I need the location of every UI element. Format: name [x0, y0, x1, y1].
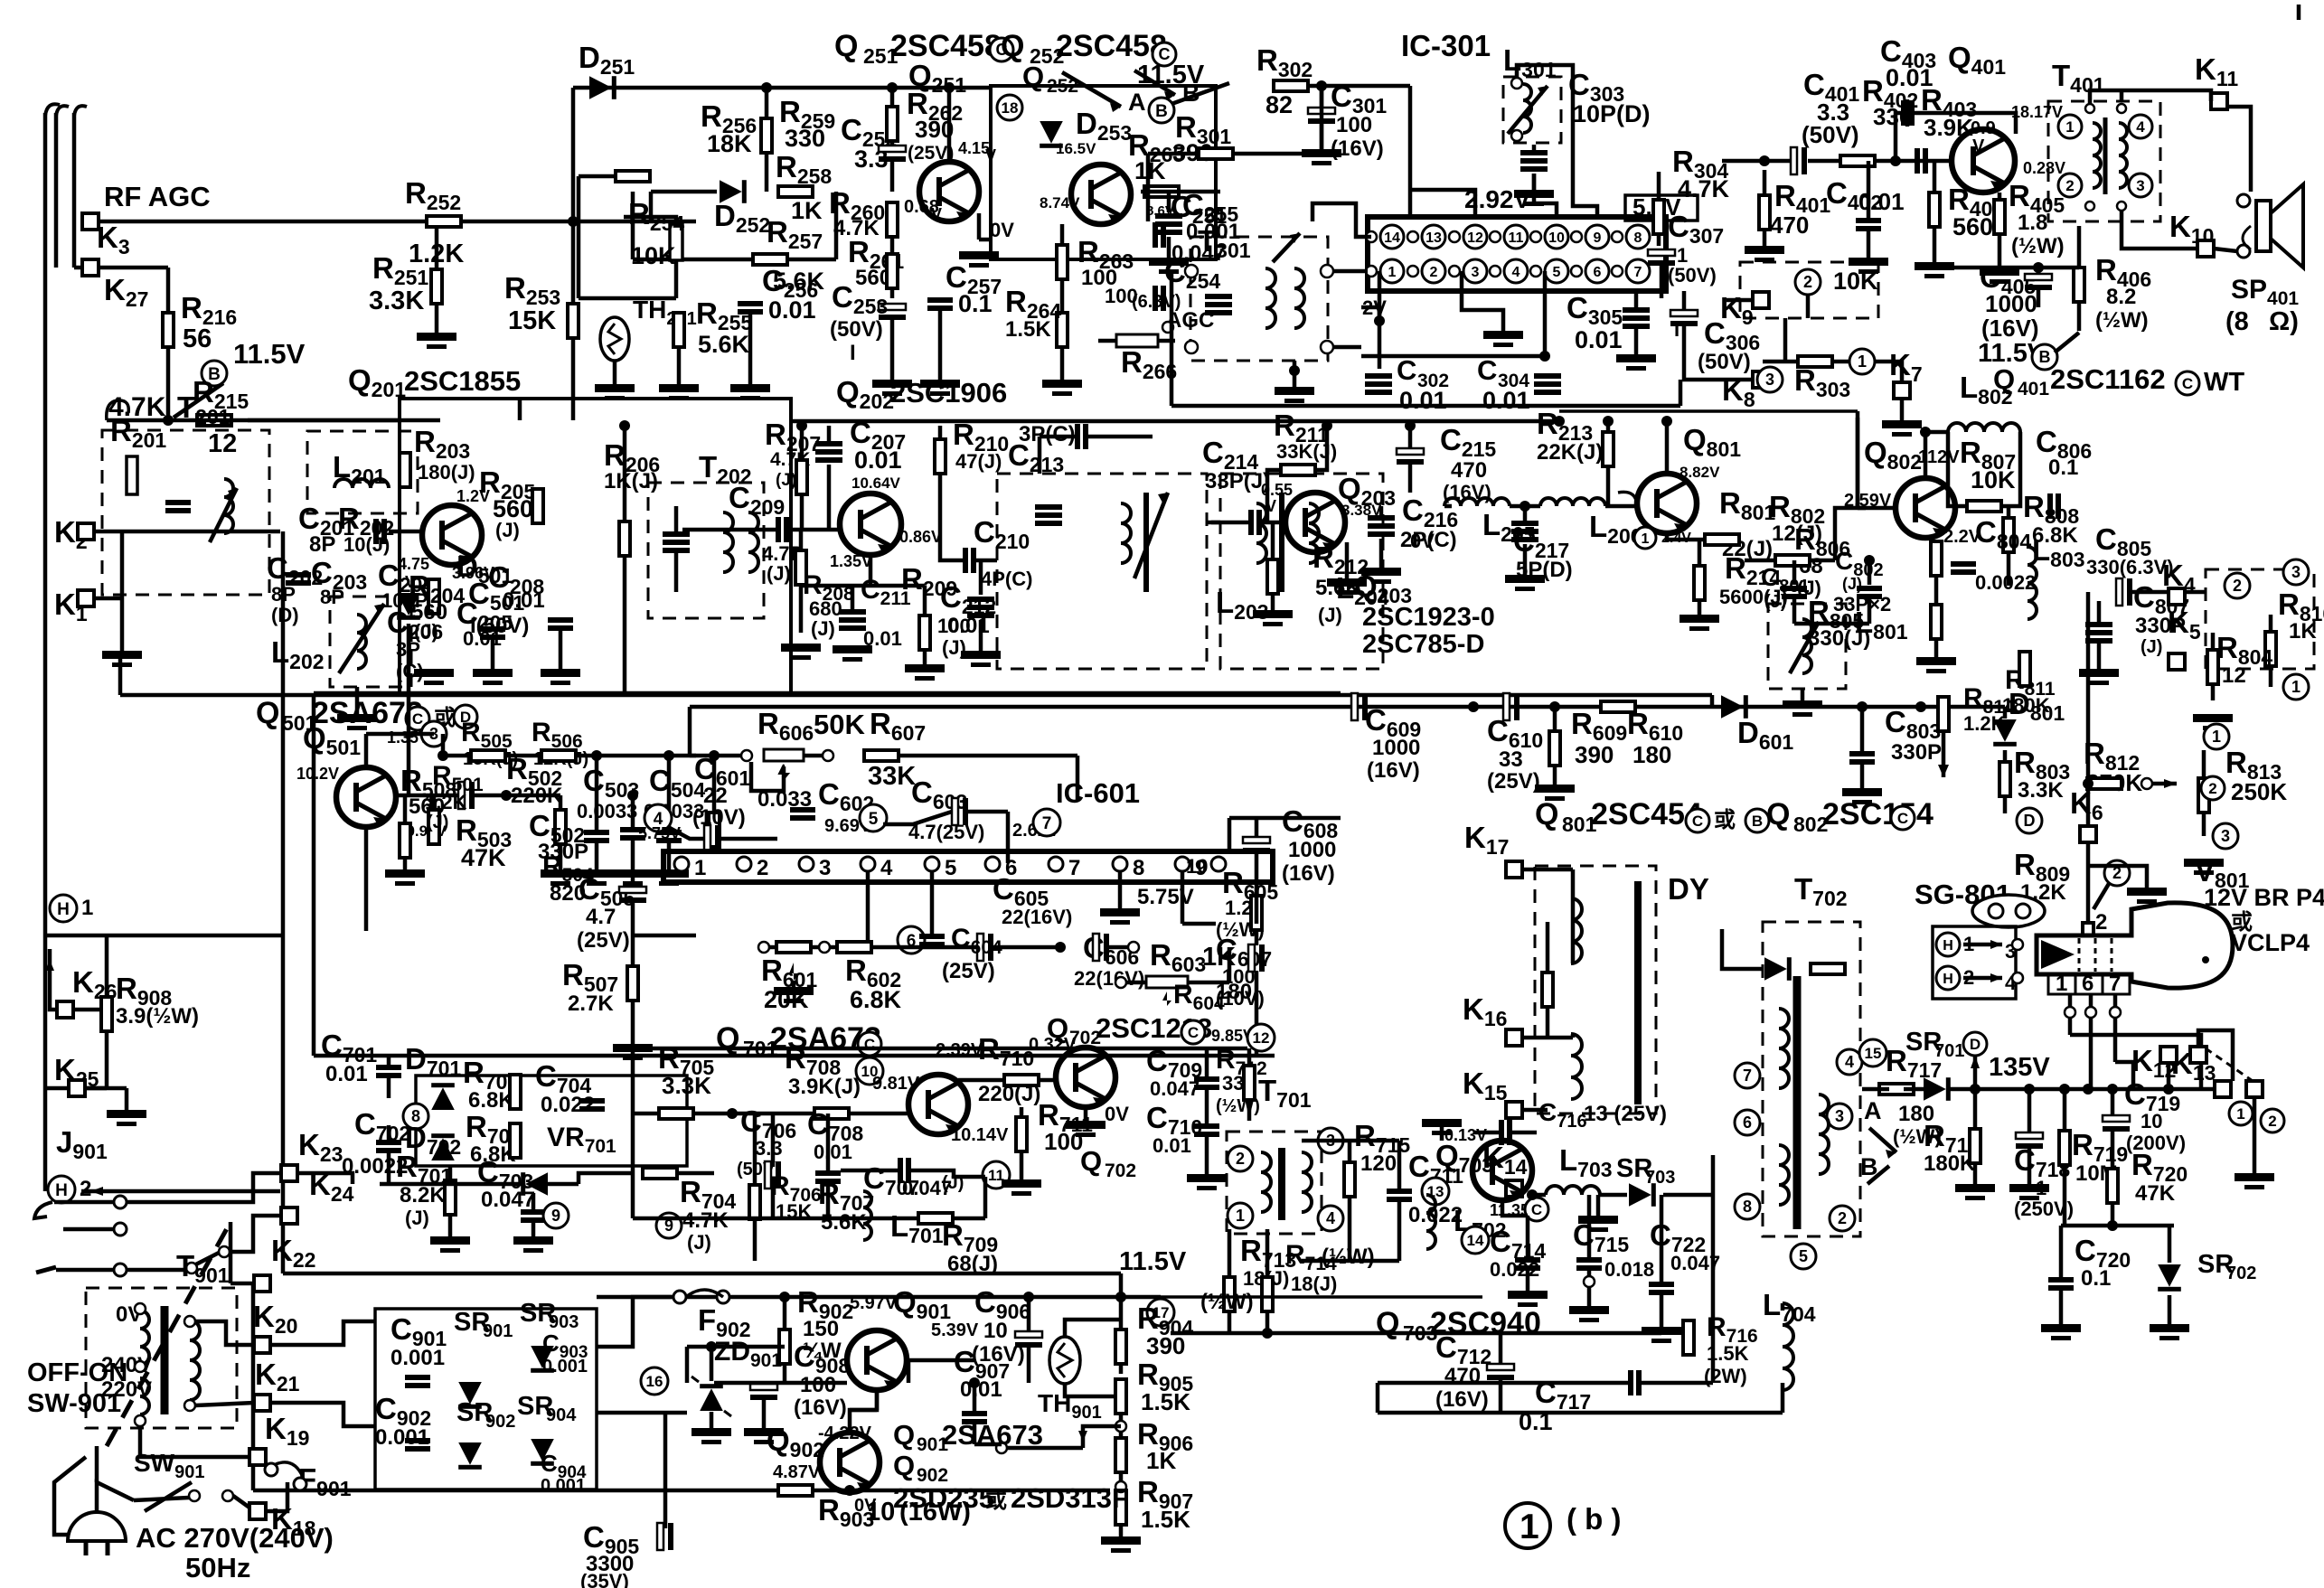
svg-text:1.5K: 1.5K	[1141, 1388, 1190, 1415]
wire C403	[1905, 99, 1910, 127]
diode T702 rect diode	[1764, 957, 1792, 981]
transformer T901	[86, 1288, 237, 1428]
svg-text:C: C	[2182, 375, 2193, 392]
resistor R712v	[1244, 1066, 1255, 1100]
wire	[938, 426, 943, 439]
node C	[1891, 806, 1915, 830]
capacitor C253	[879, 304, 906, 310]
capacitor C301	[1308, 108, 1335, 114]
wire	[1379, 506, 1384, 515]
inductor L702	[1426, 1195, 1435, 1249]
terminal K16	[1506, 1029, 1522, 1046]
ground R501	[385, 869, 425, 878]
wire	[938, 309, 943, 380]
terminal K19	[249, 1449, 266, 1465]
inductor T701 secondary	[1302, 1152, 1312, 1212]
wire	[94, 530, 127, 534]
inductor L704	[1783, 1303, 1793, 1390]
resistor R215	[197, 415, 231, 426]
svg-text:C: C	[1692, 813, 1703, 830]
svg-text:1: 1	[1642, 531, 1650, 547]
pin 7	[1626, 259, 1650, 283]
wire	[875, 1390, 880, 1410]
svg-text:0.047: 0.047	[1150, 1077, 1200, 1100]
svg-text:1: 1	[1858, 352, 1867, 371]
wire pins route	[2070, 1035, 2201, 1089]
resistor R904v	[1115, 1330, 1126, 1364]
resistor R713v	[1224, 1277, 1235, 1311]
capacitor C213 3P	[1075, 424, 1080, 449]
svg-text:4P(C): 4P(C)	[981, 568, 1032, 590]
capacitor C906	[1015, 1331, 1042, 1338]
capacitor C711c	[1387, 1189, 1412, 1194]
resistor R406	[2074, 268, 2084, 302]
svg-text:11.5V: 11.5V	[233, 338, 306, 370]
resistor R253	[568, 304, 579, 338]
ground C305	[1616, 354, 1656, 362]
inductor T701 primary	[1261, 1152, 1271, 1212]
svg-text:H: H	[55, 1181, 68, 1200]
svg-text:4.7: 4.7	[586, 905, 616, 929]
wire gnd top	[1440, 1119, 1444, 1141]
svg-text:7: 7	[1743, 1066, 1752, 1085]
resistor R719	[2059, 1131, 2070, 1165]
svg-text:(J): (J)	[1318, 604, 1342, 626]
wire	[1255, 818, 1259, 837]
svg-text:703: 703	[1645, 1168, 1675, 1188]
svg-text:0.01: 0.01	[1575, 326, 1623, 353]
pin 3	[799, 857, 814, 871]
box D701 D702	[416, 1076, 687, 1166]
wire	[50, 949, 57, 1010]
svg-text:AC 270V(240V): AC 270V(240V)	[136, 1522, 334, 1554]
svg-text:10.14V: 10.14V	[951, 1125, 1009, 1145]
wire	[1781, 1303, 1785, 1311]
ground C217	[1505, 575, 1545, 583]
svg-text:0.01: 0.01	[814, 1141, 852, 1163]
svg-text:1: 1	[1520, 1508, 1539, 1546]
capacitor C702	[376, 1140, 401, 1145]
resistor R506x	[541, 750, 576, 761]
wire IF top bus	[791, 419, 1559, 424]
wire	[800, 426, 804, 460]
svg-text:0.1: 0.1	[2048, 456, 2078, 480]
inductor T702 primary upper	[1779, 1009, 1789, 1088]
svg-text:10: 10	[2141, 1110, 2162, 1132]
svg-text:16: 16	[646, 1373, 663, 1390]
svg-text:0.01: 0.01	[325, 1062, 368, 1086]
resistor R302	[1274, 80, 1308, 91]
CRT gun	[2041, 940, 2075, 969]
pin 4	[1504, 259, 1528, 283]
svg-text:(J): (J)	[414, 620, 438, 643]
node 4	[2129, 115, 2152, 138]
svg-text:H: H	[57, 900, 70, 919]
svg-text:470: 470	[1451, 458, 1487, 483]
svg-text:2: 2	[80, 1177, 91, 1201]
ground R401	[1745, 246, 1784, 254]
wire	[712, 756, 717, 813]
node 11	[983, 1161, 1010, 1189]
svg-text:1.2K: 1.2K	[425, 791, 467, 813]
svg-text:3.3K: 3.3K	[369, 287, 424, 315]
wire	[1499, 1333, 1503, 1364]
svg-text:0V: 0V	[990, 219, 1014, 241]
wire	[2055, 333, 2079, 352]
svg-text:120: 120	[1360, 1151, 1397, 1176]
wire	[1084, 1107, 1088, 1121]
ground Q251e	[959, 251, 999, 259]
wire	[387, 1056, 391, 1065]
wire	[762, 1383, 767, 1384]
svg-text:(J): (J)	[495, 519, 520, 541]
inductor L301	[1523, 84, 1531, 133]
wire	[1963, 976, 2002, 981]
capacitor C608	[1243, 837, 1270, 843]
wire	[2093, 882, 2110, 909]
capacitor C607x	[1248, 944, 1255, 972]
diode D601	[1721, 695, 1748, 719]
wire	[1596, 1195, 1601, 1216]
svg-text:(25V): (25V)	[942, 959, 995, 983]
inductor T202 coil L	[723, 512, 733, 572]
terminal K1	[78, 590, 94, 606]
svg-text:0.001: 0.001	[390, 1346, 445, 1370]
node 7	[1735, 1063, 1760, 1088]
capacitor C252	[879, 146, 906, 152]
svg-text:1: 1	[2291, 678, 2300, 696]
wire row 1356	[2061, 1224, 2174, 1228]
svg-text:7: 7	[1634, 265, 1642, 280]
svg-text:135V: 135V	[1989, 1053, 2050, 1082]
svg-text:11: 11	[1509, 230, 1524, 246]
wire	[435, 304, 439, 333]
svg-text:DY: DY	[1668, 872, 1709, 906]
capacitor C303	[1520, 150, 1548, 155]
inductor L701	[863, 1191, 871, 1240]
capacitor C503	[584, 830, 609, 835]
svg-text:6: 6	[1743, 1113, 1752, 1132]
wire	[491, 638, 495, 669]
svg-text:D: D	[1970, 1036, 1981, 1053]
svg-text:6: 6	[1594, 265, 1602, 280]
capacitor C405	[2025, 274, 2052, 280]
capacitor C703	[521, 1209, 546, 1215]
wire	[1900, 399, 1905, 420]
svg-text:0.28V: 0.28V	[2023, 159, 2065, 177]
wire	[1722, 159, 1791, 164]
capacitor C712	[1487, 1364, 1514, 1370]
ground R208	[781, 644, 821, 652]
svg-text:1: 1	[694, 856, 706, 880]
wire	[195, 1403, 254, 1405]
node 5	[1791, 1244, 1816, 1269]
pin 1	[674, 857, 689, 871]
wire	[1606, 421, 1611, 432]
svg-text:50Hz: 50Hz	[185, 1552, 250, 1583]
ground R805	[1916, 657, 1956, 665]
svg-text:22(16V): 22(16V)	[1074, 967, 1144, 990]
inductor L301 shield	[1503, 77, 1561, 143]
resistor R401	[1759, 195, 1770, 230]
capacitor C210	[963, 548, 968, 573]
svg-text:(D): (D)	[271, 604, 299, 626]
node 1	[2204, 724, 2229, 749]
svg-text:(8: (8	[2225, 307, 2249, 336]
svg-text:1K: 1K	[1134, 157, 1166, 184]
svg-text:16.5V: 16.5V	[1056, 140, 1096, 157]
svg-text:Q: Q	[716, 1021, 739, 1056]
svg-text:8: 8	[1743, 1198, 1752, 1216]
capacitor C706	[765, 1161, 771, 1189]
svg-text:SW-901: SW-901	[27, 1389, 121, 1418]
diode SR904d	[531, 1439, 554, 1466]
ground pin8	[1100, 908, 1140, 916]
diode SR701	[1924, 1077, 1951, 1101]
svg-text:(½W): (½W)	[1200, 1290, 1254, 1314]
svg-text:3.3: 3.3	[755, 1137, 783, 1160]
fuse F902	[673, 1291, 686, 1303]
wire	[532, 1193, 536, 1210]
svg-text:3.3K: 3.3K	[2018, 778, 2064, 803]
inductor L801 coil	[1802, 619, 1811, 673]
wire loop	[690, 754, 747, 758]
resistor R263	[1057, 245, 1068, 279]
svg-text:0.0022: 0.0022	[1975, 571, 2036, 594]
capacitor C217	[1511, 521, 1538, 526]
svg-text:Q: Q	[1001, 29, 1024, 63]
wire pin9 stub	[1573, 149, 1597, 217]
svg-text:RF AGC: RF AGC	[104, 181, 211, 212]
resistor R402	[1840, 155, 1875, 166]
resistor R802x	[1775, 555, 1810, 566]
resistor R903x	[778, 1485, 813, 1496]
wire right column	[1711, 1195, 1716, 1333]
wire arrows A B	[1869, 1128, 1896, 1152]
svg-text:18K: 18K	[707, 130, 752, 157]
svg-text:Ω): Ω)	[2269, 307, 2299, 336]
capacitor C718	[2016, 1132, 2043, 1139]
wire	[907, 1360, 911, 1383]
svg-text:47(J): 47(J)	[955, 450, 1002, 473]
wire	[435, 221, 439, 269]
wire pin10 stub	[1534, 174, 1557, 217]
inductor T702 primary lower	[1779, 1145, 1789, 1205]
svg-text:4: 4	[1512, 265, 1520, 280]
resistor R609v	[1549, 731, 1560, 766]
diode D252	[720, 180, 747, 203]
node 13	[1422, 1178, 1449, 1205]
diode D701d	[431, 1083, 455, 1110]
svg-text:Q: Q	[1376, 1306, 1399, 1340]
svg-text:2SC454: 2SC454	[1591, 797, 1702, 832]
resistor R808	[2003, 518, 2014, 552]
wire	[674, 260, 679, 298]
box trap R303	[1740, 262, 1878, 318]
wire	[753, 1113, 757, 1185]
terminal K17	[1506, 861, 1522, 878]
wire	[140, 1426, 249, 1457]
svg-text:11.5V: 11.5V	[1119, 1247, 1187, 1276]
node C	[406, 707, 429, 730]
ground R507	[613, 1044, 653, 1052]
svg-text:2: 2	[1430, 265, 1438, 280]
wire	[890, 237, 895, 254]
node H	[1936, 933, 1960, 956]
svg-text:2SC1162: 2SC1162	[2050, 363, 2166, 395]
resistor R710x	[1004, 1075, 1039, 1085]
wire	[1998, 193, 2002, 200]
terminal K4	[2169, 588, 2185, 605]
pin7 box	[2103, 974, 2130, 994]
svg-text:5.97V: 5.97V	[850, 1293, 898, 1313]
pin 5	[1545, 259, 1568, 283]
svg-text:5.75V: 5.75V	[1137, 885, 1194, 909]
box K4 net	[2206, 569, 2314, 669]
transistor Q901	[847, 1330, 907, 1390]
wire Q902/Q901	[850, 1390, 877, 1433]
svg-text:22K(J): 22K(J)	[1537, 440, 1603, 465]
pin 1	[1380, 259, 1404, 283]
transistor Q902	[820, 1433, 880, 1492]
resistor R265	[1144, 186, 1179, 197]
ground pin3	[1483, 331, 1523, 339]
wire	[1462, 271, 1503, 331]
resistor R258	[778, 186, 813, 197]
node B	[1745, 809, 1769, 832]
resistor R206	[619, 522, 630, 556]
wire	[127, 530, 280, 534]
wire	[1682, 291, 1687, 310]
svg-text:12: 12	[208, 429, 237, 458]
svg-text:A: A	[1128, 89, 1146, 116]
svg-text:6.8K: 6.8K	[850, 986, 902, 1013]
wire	[1255, 896, 1259, 924]
pin 7	[1049, 857, 1063, 871]
ground R718	[1955, 1184, 1995, 1192]
svg-text:5: 5	[869, 810, 879, 829]
resistor R256 body	[616, 171, 650, 182]
wire	[56, 1268, 114, 1273]
inductor L206	[1540, 498, 1605, 506]
shield C213 L203	[997, 474, 1207, 669]
ground R502	[541, 869, 580, 878]
shield L801	[1768, 604, 1846, 689]
wire	[1271, 522, 1275, 559]
ground C503	[577, 869, 616, 878]
wire	[667, 756, 672, 830]
svg-text:(J): (J)	[427, 813, 448, 832]
transistor Q202	[840, 493, 901, 555]
diode D253	[1040, 121, 1063, 148]
wire	[2227, 107, 2251, 192]
wire	[1444, 504, 1452, 509]
tuning arrow	[1790, 622, 1819, 673]
wire	[1896, 113, 1901, 161]
svg-text:2: 2	[1838, 1209, 1847, 1227]
svg-text:C: C	[1477, 354, 1497, 386]
svg-text:8: 8	[1133, 856, 1144, 880]
g2	[659, 384, 699, 392]
diode ZD901	[700, 1384, 723, 1411]
pin 5	[925, 857, 939, 871]
wire	[120, 598, 125, 651]
wire	[54, 1200, 114, 1205]
svg-text:1K: 1K	[791, 197, 823, 224]
wire	[595, 756, 599, 830]
node H	[50, 895, 77, 922]
wire	[2111, 1089, 2115, 1115]
wire	[432, 795, 437, 810]
node 2	[2261, 1109, 2284, 1132]
capacitor C257	[927, 297, 953, 303]
wire	[890, 320, 895, 380]
capacitor C701	[376, 1065, 401, 1070]
wire	[1148, 152, 1200, 156]
svg-text:10.64V: 10.64V	[852, 475, 901, 492]
svg-text:V: V	[1265, 497, 1276, 515]
wire	[105, 935, 109, 997]
svg-text:390: 390	[1575, 741, 1614, 768]
svg-text:(J): (J)	[776, 471, 796, 490]
node C	[1525, 1198, 1548, 1221]
node 2	[1795, 269, 1821, 295]
wire	[979, 560, 983, 595]
svg-text:10K: 10K	[1971, 466, 2016, 493]
resistor R264	[1057, 313, 1068, 347]
node C	[1181, 1020, 1205, 1044]
svg-text:470: 470	[1770, 211, 1809, 239]
inductor T301 coil L	[1265, 268, 1275, 328]
wire	[940, 530, 963, 560]
capacitor C216	[1368, 515, 1395, 521]
resistor R814	[1938, 697, 1949, 731]
wire left spine	[281, 531, 286, 1273]
wire	[973, 1383, 977, 1412]
wire arrow tuning	[210, 488, 237, 542]
ground R404	[1915, 262, 1954, 270]
switch SW901	[189, 1490, 200, 1501]
resistor R714v	[1262, 1277, 1273, 1311]
svg-text:2SC458: 2SC458	[890, 29, 1002, 63]
wire	[783, 1297, 787, 1330]
resistor R504	[709, 813, 720, 847]
svg-text:904: 904	[546, 1405, 577, 1425]
svg-text:220(J): 220(J)	[978, 1082, 1040, 1106]
wire emitter	[869, 555, 873, 586]
svg-text:(J): (J)	[405, 1207, 429, 1229]
wire	[1517, 65, 1573, 149]
svg-text:3.9(½W): 3.9(½W)	[116, 1004, 199, 1029]
transformer T702	[1763, 922, 1860, 1236]
ground CRT top	[2127, 888, 2167, 896]
node 3	[1757, 367, 1783, 392]
pin 10	[1545, 225, 1568, 249]
wire	[1722, 929, 1763, 969]
resistor R213	[1603, 432, 1614, 466]
resistor R709x	[918, 1213, 953, 1224]
resistor R716v	[1683, 1320, 1694, 1355]
svg-text:4: 4	[2136, 118, 2145, 136]
node 1	[1849, 349, 1875, 374]
ground C502	[613, 869, 653, 878]
svg-text:2: 2	[2208, 780, 2216, 797]
IC IC-301	[1368, 217, 1666, 291]
diode SR902d	[458, 1442, 482, 1470]
capacitor C255	[1155, 213, 1182, 219]
transistor Q251	[919, 162, 979, 221]
svg-text:0.01: 0.01	[768, 296, 816, 324]
